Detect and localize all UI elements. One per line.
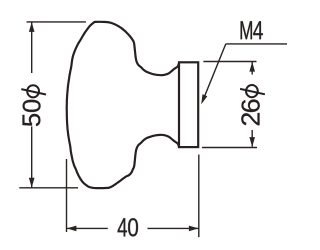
phi slash of 50φ xyxy=(21,89,46,94)
digit 2 of 26φ xyxy=(241,113,259,125)
26φ arrowhead down xyxy=(249,137,255,147)
dimension 40 : extension and dimension lines xyxy=(67,155,199,238)
letter M of M4 xyxy=(241,21,252,39)
26φ bottom extension line xyxy=(202,147,257,149)
M4 label xyxy=(241,21,263,39)
dimension 50φ : extension and dimension lines xyxy=(19,22,86,188)
26φ dimension line upper segment xyxy=(251,62,253,75)
26φ text digits (rotated) xyxy=(241,100,259,126)
26φ top extension line xyxy=(203,61,256,63)
50φ text digits (rotated) xyxy=(23,100,41,126)
digit 4 of M4 xyxy=(253,21,263,39)
26φ phi symbol xyxy=(240,85,265,97)
base ferrule rectangle xyxy=(179,62,198,147)
digit 5 of 50φ xyxy=(23,114,41,126)
phi slash of 26φ xyxy=(240,89,265,94)
50φ bottom extension line xyxy=(19,187,78,189)
M4 leader arrowhead xyxy=(201,94,207,104)
M4 leader line xyxy=(204,44,287,98)
digit 0 of 40 xyxy=(128,218,138,236)
40 dimension text xyxy=(118,218,138,236)
50φ arrowhead down xyxy=(29,178,35,188)
digit 6 of 26φ xyxy=(242,100,260,113)
50φ dimension line lower segment xyxy=(31,127,33,188)
phi circle of 26φ xyxy=(246,85,258,97)
40 arrowhead right xyxy=(189,226,199,232)
dimension 26φ : extension and dimension lines xyxy=(202,62,257,148)
phi circle of 50φ xyxy=(27,85,39,97)
40 dimension line left segment xyxy=(67,227,108,229)
digit 0 of 50φ xyxy=(23,100,41,112)
knob head and neck profile xyxy=(67,22,179,188)
26φ dimension line lower segment xyxy=(251,130,253,147)
40 arrowhead left xyxy=(67,226,77,232)
26φ arrowhead up xyxy=(249,62,255,72)
40 left extension line xyxy=(66,159,68,232)
40 dimension line right segment xyxy=(148,227,199,229)
50φ dimension line upper segment xyxy=(31,22,33,73)
50φ arrowhead up xyxy=(29,22,35,32)
digit 4 of 40 xyxy=(118,218,127,236)
50φ phi symbol xyxy=(21,85,46,97)
40 right extension line xyxy=(198,155,200,238)
50φ top extension line xyxy=(27,21,86,23)
